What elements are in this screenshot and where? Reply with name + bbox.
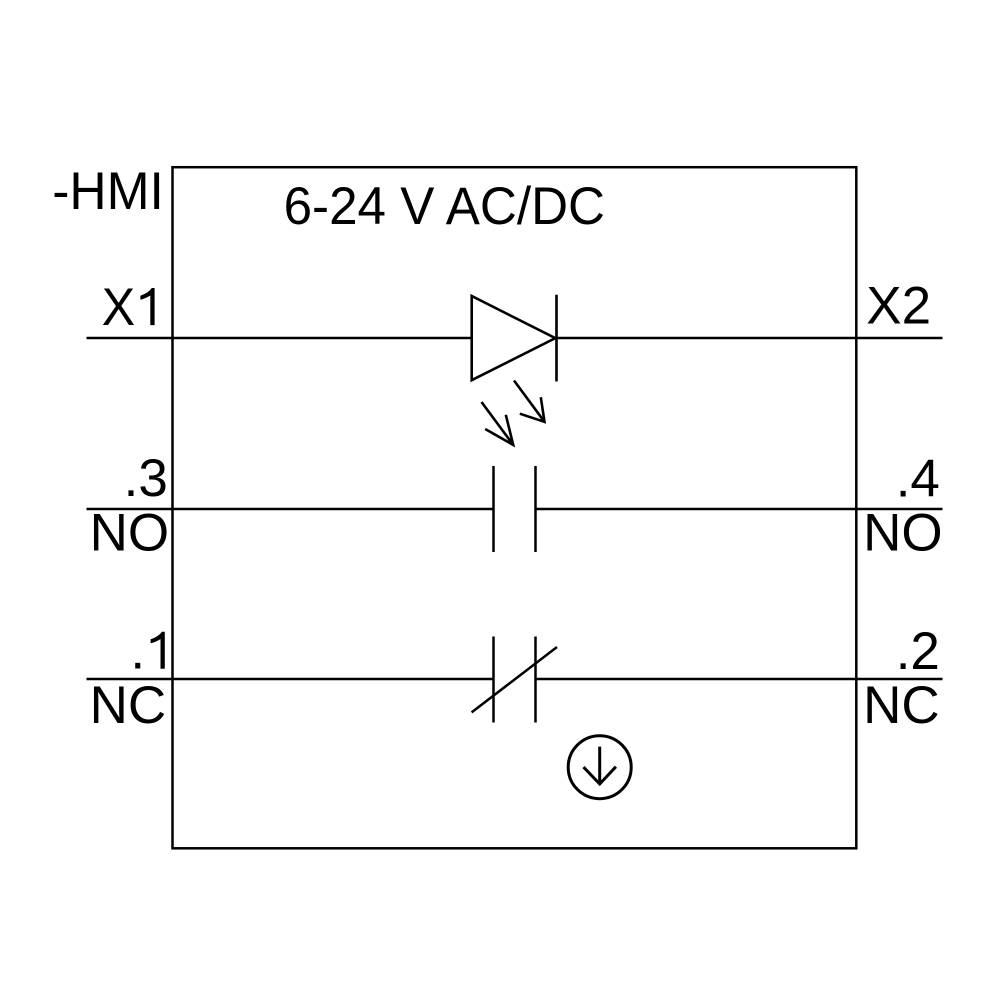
svg-text:X: X xyxy=(102,277,135,337)
LED light emission arrow 2 xyxy=(482,402,514,445)
svg-text:NO: NO xyxy=(863,504,943,563)
svg-text:NC: NC xyxy=(863,676,940,735)
wire .1 lead xyxy=(87,678,494,681)
svg-text:.3: .3 xyxy=(124,449,168,508)
component outline box xyxy=(173,167,857,848)
wire X2 lead xyxy=(557,337,943,340)
svg-text:.: . xyxy=(130,622,145,681)
NO contact xyxy=(494,466,536,552)
svg-text:NO: NO xyxy=(90,504,169,563)
svg-text:6-24 V AC/DC: 6-24 V AC/DC xyxy=(284,177,605,236)
LED lamp U1 triangle (anode) xyxy=(472,296,556,380)
LED light emission arrow 1 xyxy=(514,381,545,422)
NC contact xyxy=(472,637,557,723)
svg-text:NC: NC xyxy=(90,676,167,735)
svg-text:.2: .2 xyxy=(896,622,940,681)
wire .3 lead xyxy=(87,508,494,511)
LED cathode bar xyxy=(555,295,558,382)
actuator symbol (push direction) xyxy=(568,736,631,799)
wire .2 lead xyxy=(536,678,943,681)
svg-text:.4: .4 xyxy=(896,449,940,508)
wire X1 lead xyxy=(87,337,472,340)
wire .4 lead xyxy=(536,508,943,511)
svg-text:X2: X2 xyxy=(866,277,931,336)
svg-text:-HMI: -HMI xyxy=(52,162,164,221)
